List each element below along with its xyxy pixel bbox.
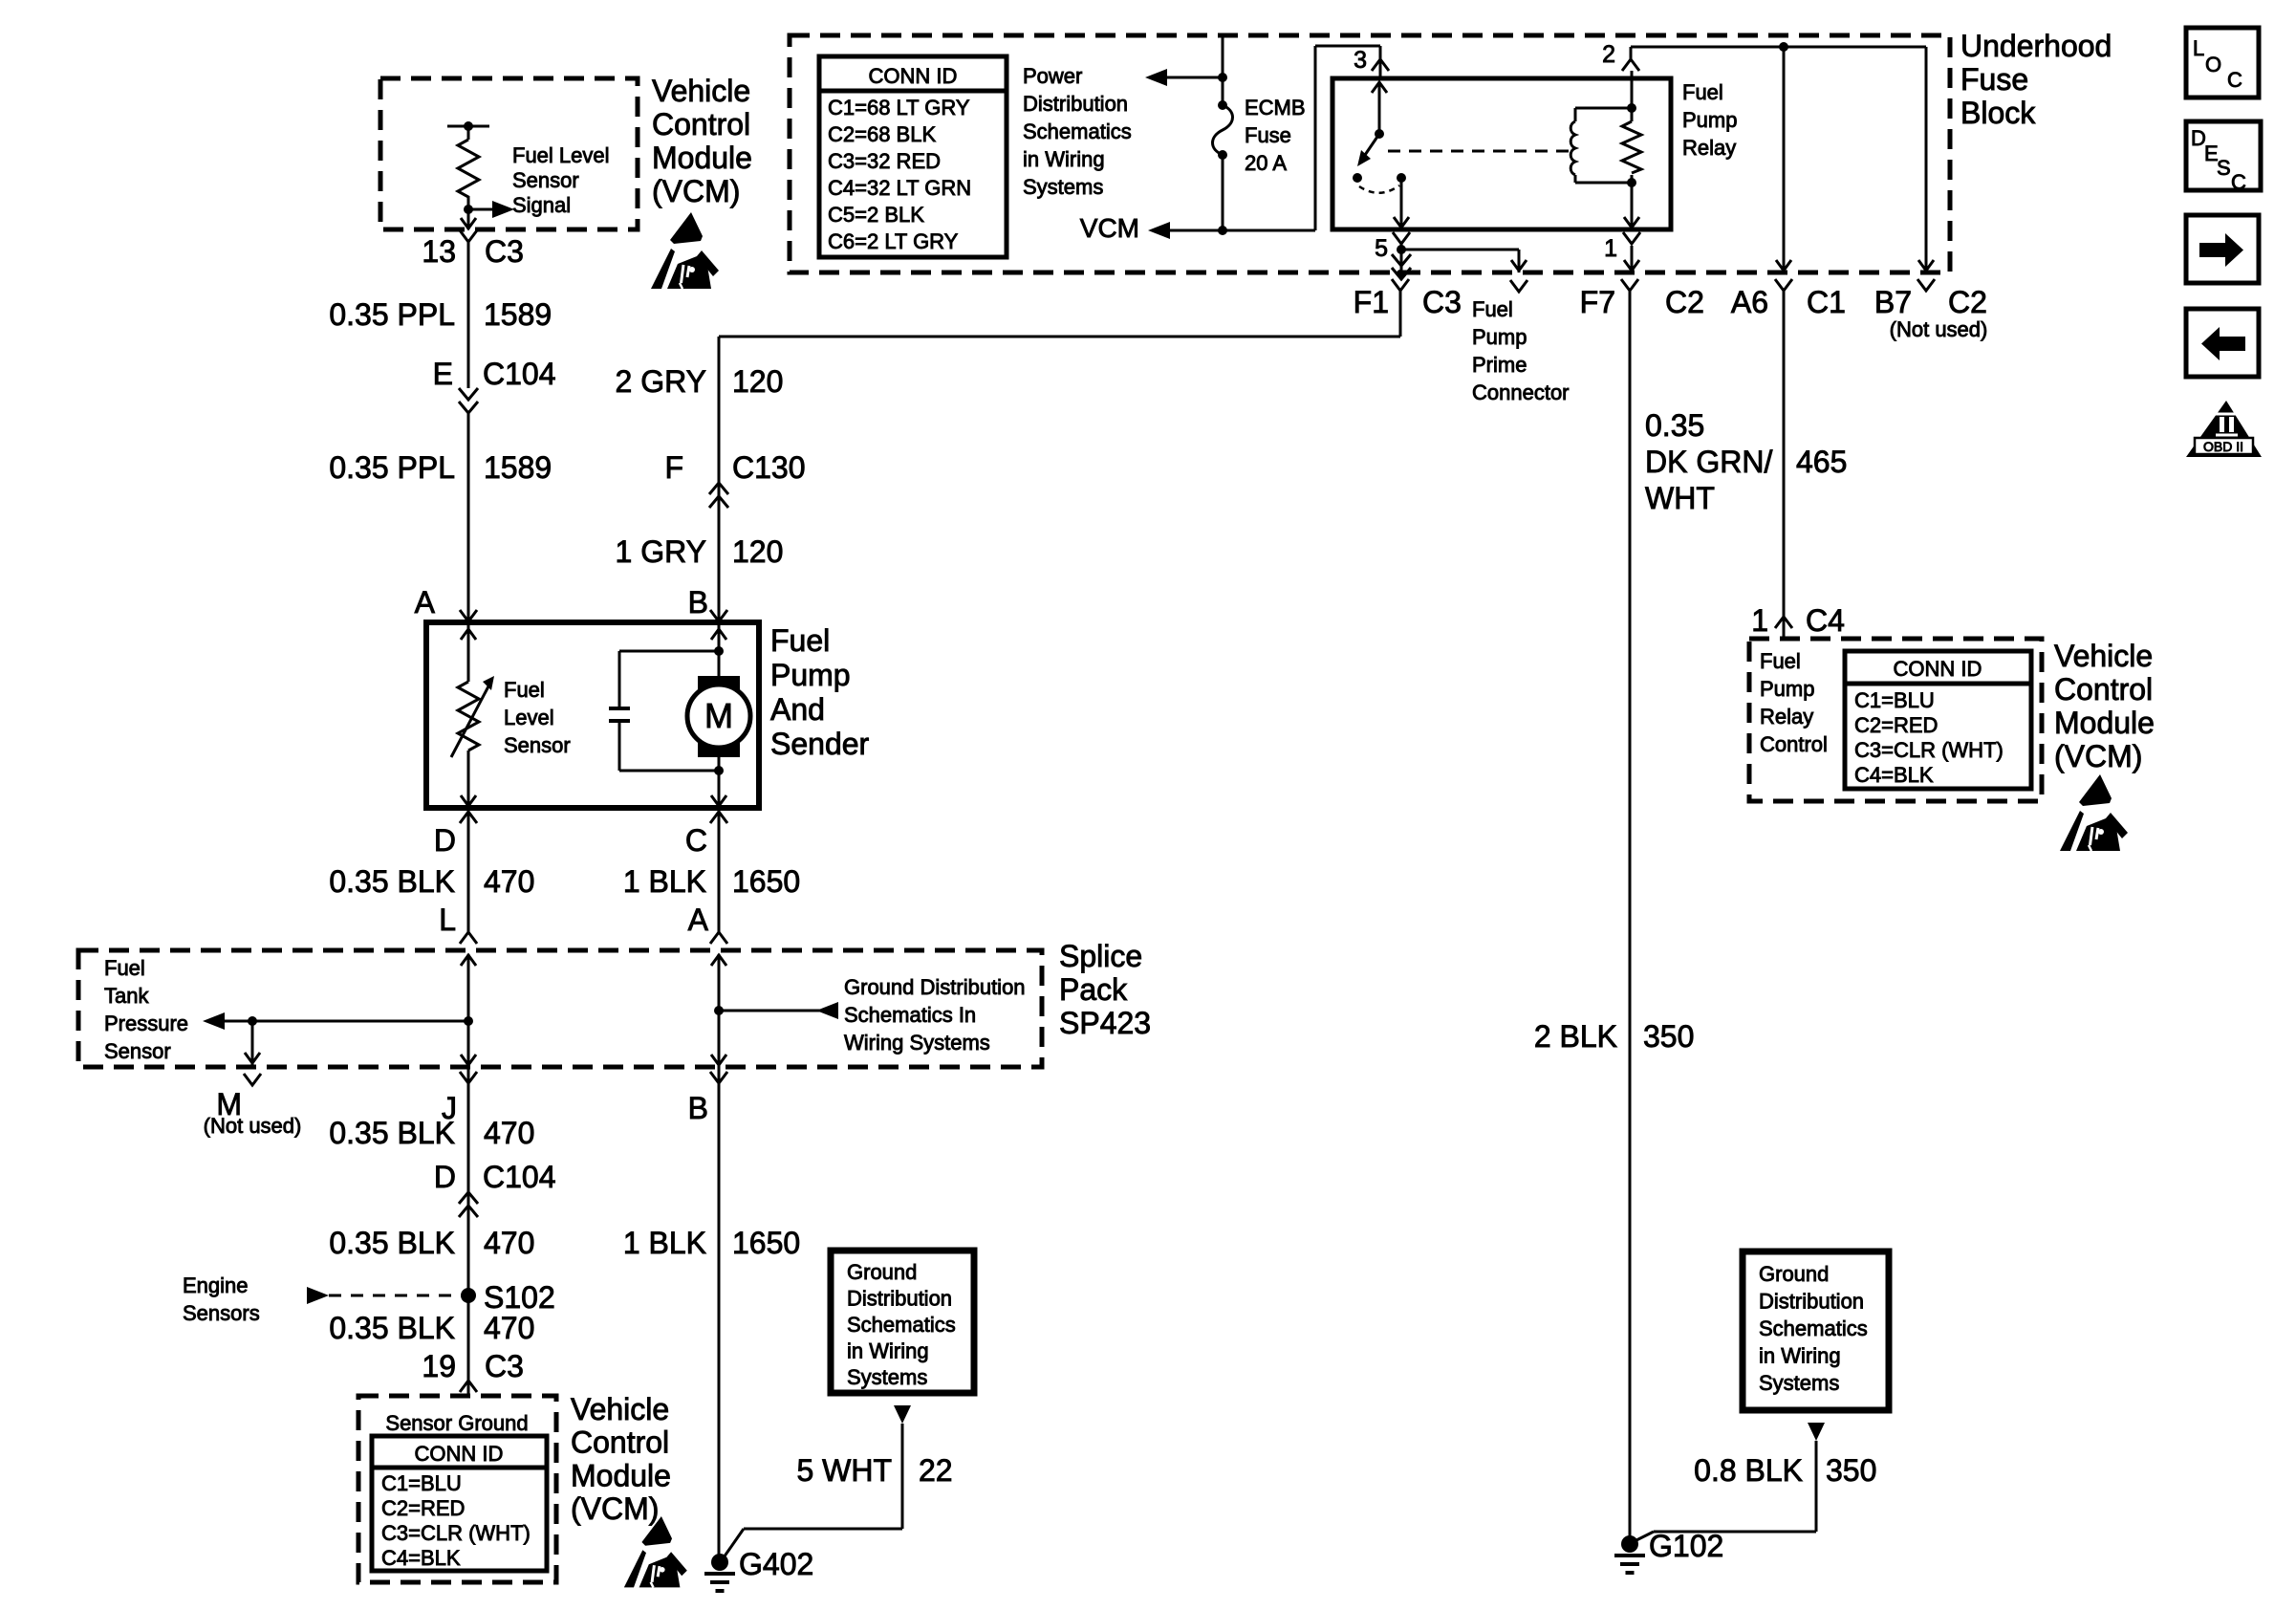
svg-text:Fuel: Fuel — [1682, 80, 1723, 104]
svg-text:Pressure: Pressure — [104, 1012, 188, 1035]
svg-text:C6=2 LT GRY: C6=2 LT GRY — [828, 229, 959, 253]
svg-text:C1=68 LT GRY: C1=68 LT GRY — [828, 96, 970, 120]
svg-text:Pump: Pump — [770, 658, 851, 692]
svg-text:Fuel: Fuel — [1472, 297, 1513, 321]
svg-text:0.35: 0.35 — [1645, 408, 1704, 443]
svg-text:in Wiring: in Wiring — [1759, 1344, 1841, 1368]
svg-text:Engine: Engine — [183, 1273, 249, 1297]
svg-text:D: D — [434, 1160, 456, 1194]
svg-text:Fuse: Fuse — [1245, 123, 1291, 147]
svg-text:O: O — [2205, 53, 2221, 76]
svg-text:E: E — [433, 357, 453, 391]
svg-text:C2=RED: C2=RED — [381, 1496, 465, 1520]
svg-text:Fuel Level: Fuel Level — [512, 143, 610, 167]
svg-text:ECMB: ECMB — [1245, 96, 1306, 120]
svg-text:DK GRN/: DK GRN/ — [1645, 445, 1772, 479]
svg-text:M: M — [704, 696, 733, 735]
svg-text:F1: F1 — [1354, 285, 1389, 319]
svg-text:B: B — [688, 1091, 708, 1125]
svg-text:(VCM): (VCM) — [2054, 739, 2142, 773]
svg-text:Module: Module — [2054, 706, 2155, 740]
svg-text:Fuel: Fuel — [504, 678, 545, 702]
svg-text:Module: Module — [652, 141, 752, 175]
svg-text:CONN ID: CONN ID — [415, 1442, 504, 1466]
svg-text:L: L — [2193, 36, 2204, 60]
svg-text:Sensor Ground: Sensor Ground — [385, 1411, 528, 1435]
svg-text:Pump: Pump — [1472, 325, 1527, 349]
svg-text:3: 3 — [1354, 47, 1367, 74]
svg-text:5 WHT: 5 WHT — [796, 1453, 892, 1488]
svg-text:13: 13 — [422, 234, 456, 269]
svg-text:Block: Block — [1960, 96, 2036, 130]
svg-text:Pump: Pump — [1682, 108, 1737, 132]
svg-text:1650: 1650 — [732, 864, 800, 899]
svg-text:C4=BLK: C4=BLK — [1854, 763, 1934, 787]
svg-text:C4=BLK: C4=BLK — [381, 1546, 461, 1570]
svg-text:Pump: Pump — [1760, 677, 1814, 701]
svg-text:Level: Level — [504, 706, 554, 729]
svg-text:Systems: Systems — [1023, 175, 1103, 199]
svg-text:Signal: Signal — [512, 193, 571, 217]
svg-text:C3: C3 — [485, 234, 524, 269]
svg-text:Control: Control — [652, 107, 750, 141]
svg-text:0.35 BLK: 0.35 BLK — [329, 864, 455, 899]
svg-text:2 BLK: 2 BLK — [1534, 1019, 1617, 1054]
svg-text:Tank: Tank — [104, 984, 149, 1008]
svg-text:2 GRY: 2 GRY — [616, 364, 706, 399]
svg-text:0.35 PPL: 0.35 PPL — [329, 450, 455, 485]
svg-text:C2=68 BLK: C2=68 BLK — [828, 122, 936, 146]
svg-text:(Not used): (Not used) — [204, 1114, 302, 1138]
svg-text:Fuel: Fuel — [1760, 649, 1801, 673]
svg-text:Schematics: Schematics — [1023, 120, 1132, 143]
svg-text:Schematics: Schematics — [847, 1313, 956, 1337]
svg-text:SP423: SP423 — [1059, 1006, 1151, 1040]
svg-text:1650: 1650 — [732, 1226, 800, 1260]
svg-text:Control: Control — [2054, 672, 2153, 707]
svg-text:A: A — [688, 903, 709, 937]
svg-text:5: 5 — [1375, 235, 1388, 262]
svg-text:Splice: Splice — [1059, 939, 1142, 973]
svg-text:C5=2 BLK: C5=2 BLK — [828, 203, 924, 227]
svg-text:WHT: WHT — [1645, 481, 1715, 515]
svg-text:And: And — [770, 692, 825, 727]
svg-text:G402: G402 — [739, 1547, 813, 1581]
svg-text:350: 350 — [1826, 1453, 1876, 1488]
svg-text:C104: C104 — [483, 1160, 556, 1194]
svg-text:Wiring Systems: Wiring Systems — [844, 1031, 990, 1055]
svg-text:19: 19 — [422, 1349, 456, 1383]
svg-text:B: B — [688, 585, 708, 620]
svg-text:C3=CLR (WHT): C3=CLR (WHT) — [1854, 738, 2004, 762]
svg-text:470: 470 — [484, 1311, 534, 1345]
svg-text:L: L — [439, 903, 456, 937]
svg-text:120: 120 — [732, 534, 783, 569]
svg-text:C130: C130 — [732, 450, 806, 485]
svg-text:1 BLK: 1 BLK — [623, 1226, 706, 1260]
svg-text:S102: S102 — [484, 1280, 555, 1315]
svg-text:Ground Distribution: Ground Distribution — [844, 975, 1026, 999]
svg-text:C: C — [2231, 170, 2246, 194]
svg-text:S: S — [2217, 156, 2231, 180]
svg-text:350: 350 — [1643, 1019, 1694, 1054]
svg-text:Vehicle: Vehicle — [571, 1392, 669, 1426]
svg-text:VCM: VCM — [1080, 213, 1139, 243]
svg-text:F: F — [664, 450, 683, 485]
svg-text:470: 470 — [484, 1116, 534, 1150]
svg-text:C4: C4 — [1806, 603, 1845, 638]
svg-text:Fuse: Fuse — [1960, 62, 2028, 97]
svg-text:1589: 1589 — [484, 450, 552, 485]
svg-text:1: 1 — [1604, 235, 1617, 262]
svg-text:Relay: Relay — [1760, 705, 1813, 729]
svg-text:Schematics: Schematics — [1759, 1316, 1868, 1340]
svg-text:in Wiring: in Wiring — [847, 1339, 929, 1363]
svg-text:CONN ID: CONN ID — [869, 64, 958, 88]
svg-text:D: D — [434, 823, 456, 858]
svg-text:Prime: Prime — [1472, 353, 1527, 377]
svg-text:Relay: Relay — [1682, 136, 1736, 160]
svg-text:Sensor: Sensor — [512, 168, 579, 192]
svg-text:Sensor: Sensor — [104, 1039, 171, 1063]
svg-text:Distribution: Distribution — [1023, 92, 1128, 116]
svg-text:470: 470 — [484, 864, 534, 899]
svg-text:Vehicle: Vehicle — [2054, 639, 2153, 673]
svg-text:1589: 1589 — [484, 297, 552, 332]
svg-text:Systems: Systems — [847, 1365, 927, 1389]
svg-text:OBD II: OBD II — [2203, 439, 2243, 454]
svg-text:A6: A6 — [1731, 285, 1768, 319]
svg-text:Distribution: Distribution — [847, 1287, 952, 1311]
svg-text:C104: C104 — [483, 357, 556, 391]
svg-text:C2=RED: C2=RED — [1854, 713, 1938, 737]
svg-text:Ground: Ground — [847, 1260, 917, 1284]
svg-text:in Wiring: in Wiring — [1023, 147, 1105, 171]
svg-text:C: C — [685, 823, 707, 858]
svg-text:C2: C2 — [1665, 285, 1704, 319]
svg-text:G102: G102 — [1649, 1529, 1723, 1563]
svg-text:0.35 BLK: 0.35 BLK — [329, 1311, 455, 1345]
svg-text:(VCM): (VCM) — [571, 1491, 659, 1526]
svg-text:2: 2 — [1602, 41, 1615, 68]
svg-text:C4=32 LT GRN: C4=32 LT GRN — [828, 176, 971, 200]
svg-text:Vehicle: Vehicle — [652, 74, 750, 108]
svg-text:465: 465 — [1796, 445, 1847, 479]
svg-text:(VCM): (VCM) — [652, 174, 740, 208]
svg-text:Schematics In: Schematics In — [844, 1003, 976, 1027]
svg-text:Pack: Pack — [1059, 972, 1128, 1007]
svg-text:(Not used): (Not used) — [1890, 317, 1988, 341]
svg-text:470: 470 — [484, 1226, 534, 1260]
svg-text:0.35 BLK: 0.35 BLK — [329, 1116, 455, 1150]
svg-text:A: A — [415, 585, 436, 620]
svg-text:Power: Power — [1023, 64, 1082, 88]
svg-text:C3=32 RED: C3=32 RED — [828, 149, 941, 173]
svg-text:Module: Module — [571, 1458, 671, 1492]
svg-text:Fuel: Fuel — [104, 956, 145, 980]
svg-text:C1=BLU: C1=BLU — [1854, 688, 1935, 712]
svg-text:C3=CLR (WHT): C3=CLR (WHT) — [381, 1521, 531, 1545]
svg-text:C1=BLU: C1=BLU — [381, 1471, 462, 1495]
svg-text:Control: Control — [1760, 732, 1828, 756]
svg-text:1 BLK: 1 BLK — [623, 864, 706, 899]
svg-text:Sensor: Sensor — [504, 733, 571, 757]
svg-text:Control: Control — [571, 1425, 669, 1460]
svg-text:0.8 BLK: 0.8 BLK — [1694, 1453, 1803, 1488]
svg-text:Sender: Sender — [770, 727, 870, 761]
svg-text:Distribution: Distribution — [1759, 1290, 1864, 1314]
svg-text:Ground: Ground — [1759, 1262, 1829, 1286]
svg-text:1 GRY: 1 GRY — [616, 534, 706, 569]
svg-text:Fuel: Fuel — [770, 623, 830, 658]
svg-text:0.35 PPL: 0.35 PPL — [329, 297, 455, 332]
svg-text:B7: B7 — [1874, 285, 1912, 319]
svg-text:C1: C1 — [1807, 285, 1846, 319]
svg-text:C: C — [2227, 68, 2242, 92]
svg-text:120: 120 — [732, 364, 783, 399]
svg-text:F7: F7 — [1580, 285, 1615, 319]
svg-text:C2: C2 — [1948, 285, 1987, 319]
svg-text:C3: C3 — [485, 1349, 524, 1383]
svg-text:Sensors: Sensors — [183, 1301, 260, 1325]
svg-text:C3: C3 — [1422, 285, 1462, 319]
svg-text:20 A: 20 A — [1245, 151, 1287, 175]
svg-text:22: 22 — [919, 1453, 953, 1488]
svg-text:0.35 BLK: 0.35 BLK — [329, 1226, 455, 1260]
svg-text:Underhood: Underhood — [1960, 29, 2112, 63]
svg-text:Systems: Systems — [1759, 1371, 1839, 1395]
svg-text:Connector: Connector — [1472, 381, 1570, 404]
svg-text:CONN ID: CONN ID — [1894, 657, 1982, 681]
svg-text:1: 1 — [1751, 603, 1768, 638]
